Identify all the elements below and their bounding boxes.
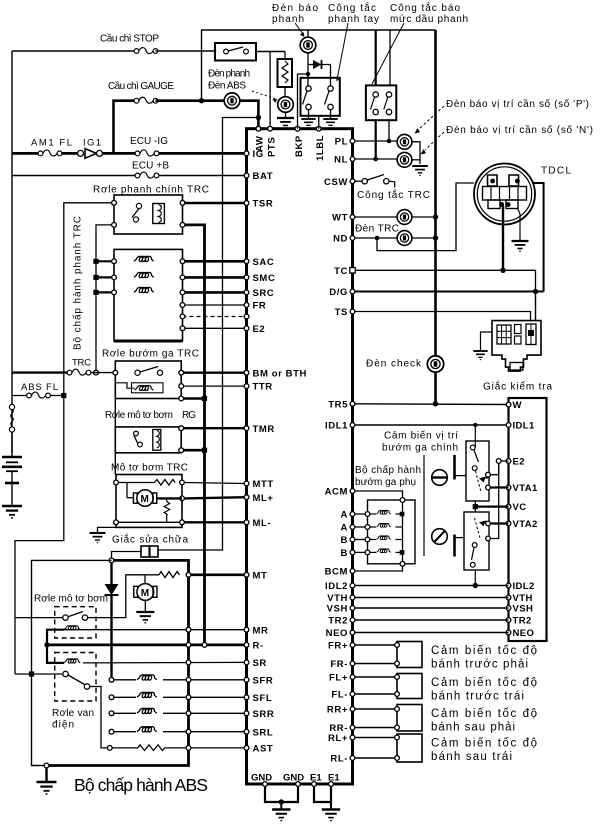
pin ECU PKB [295,126,300,131]
pin ECM NEO [506,630,511,635]
fuse AM1 FL [38,150,62,156]
pin TSR box right bottom [180,223,185,228]
svg-text:FR-: FR- [330,659,348,670]
svg-text:R-: R- [253,641,264,652]
junction TR5 [433,401,438,406]
wire STP stub [269,52,271,129]
resistor box (stop bulb check) [278,59,293,87]
wire VTH row [355,597,509,599]
pin TSR box right top [180,200,185,205]
ABS ECU main box [247,129,353,784]
coil SRC [134,287,154,292]
svg-text:AW: AW [255,135,266,152]
pin ECU SRC [244,290,249,295]
pin ECU FR- [350,661,355,666]
wire TDCL stem to TC [502,206,504,270]
throttle relay coil [132,383,164,393]
junction PL/fluid [387,139,392,144]
resistor small vertical in motor box [166,498,168,501]
wire WT row [355,216,397,218]
pin motor box left bottom [114,520,119,525]
junction service/actuator box [109,558,114,563]
junction bottom ground [44,763,49,768]
wire front right + [355,644,397,646]
svg-text:Bộ chấp hành: Bộ chấp hành [355,464,421,476]
svg-text:TMR: TMR [253,424,275,435]
ground ECU E1 [322,810,340,821]
wire ACM row [355,491,403,498]
pin motor box right ML+ [180,496,185,501]
junction AST bus [186,746,191,751]
wire +B row left [12,175,135,177]
pin ECU RR+ [350,707,355,712]
svg-text:E2: E2 [513,457,525,468]
wire SRR left [114,712,136,714]
pin ECM VTA1 [506,485,511,490]
speed sensor box rear right [397,705,422,732]
svg-text:ML+: ML+ [253,493,274,504]
svg-text:Công tắc: Công tắc [328,1,376,14]
svg-text:M: M [141,588,149,599]
svg-text:SRL: SRL [253,727,274,738]
TMR relay switch [134,431,139,436]
svg-text:NL: NL [334,155,348,166]
svg-text:E1: E1 [328,773,340,784]
wire TMR row to pin [184,427,247,429]
pin ECU ML- [244,520,249,525]
wire check lamp to TR5 [434,372,437,404]
pin sensor E2b [486,536,491,541]
svg-text:VTA2: VTA2 [513,519,538,530]
svg-text:B: B [341,535,348,546]
svg-text:SMC: SMC [253,273,276,284]
svg-text:IDL2: IDL2 [513,581,535,592]
pin ECM IDL1 [506,423,511,428]
lamp WT [397,210,412,225]
wire front left + [355,676,397,678]
pin throttle box bottom right [179,396,184,401]
TDCL connector outer [474,164,535,225]
wire front left - [355,693,397,695]
wire rear left + [355,737,397,739]
svg-text:bánh trước phải: bánh trước phải [431,659,528,671]
pin ECU B [350,550,355,555]
wire sub sensor to IDL2 [474,570,476,586]
wire VTA2 row [490,522,508,524]
pin ECU SFL [244,695,249,700]
pin SAC box right [180,259,185,264]
junction E2 [496,459,501,464]
battery [2,456,22,459]
wire STOP fuse row [12,50,134,52]
svg-text:A: A [341,510,348,521]
wire TMR box left down to motor box [114,453,116,475]
wire battery to ground [11,483,13,506]
coil SFL [137,692,157,697]
wire fluid box to NL row [375,120,377,159]
junction GND stem [279,799,284,804]
wire TSR box bottom-right to main thick rail [185,225,205,642]
svg-text:VTA1: VTA1 [513,483,538,494]
junction MT bus [186,572,191,577]
pin ECU SRR [244,711,249,716]
junction SFL bus [186,695,191,700]
svg-text:SRC: SRC [253,288,275,299]
junction IDL2 [473,583,478,588]
pin ECU FL- [350,692,355,697]
svg-text:PL: PL [335,137,348,148]
pin ECU R- [244,643,249,648]
svg-text:MT: MT [253,570,268,581]
svg-text:mức dầu phanh: mức dầu phanh [390,13,468,25]
svg-text:1LBL: 1LBL [315,135,326,161]
wire ND to TDCL loop [377,183,474,251]
pin ECU TC [350,268,355,273]
wire ML+ row to pin [184,497,246,498]
svg-text:IDL1: IDL1 [325,421,348,432]
dashed relay box solenoid relay [55,653,96,702]
coil stepper A2 [370,526,376,528]
svg-text:VSH: VSH [513,604,534,615]
pin ECU spare [244,314,249,319]
pin ECU VSH [350,606,355,611]
wire ground stem [45,768,47,782]
svg-text:TR2: TR2 [513,616,532,627]
svg-text:Rơle bướm ga TRC: Rơle bướm ga TRC [102,349,199,360]
pin ECU NEO [350,630,355,635]
main throttle sensor box [466,441,489,501]
fuse GAUGE [134,97,158,103]
pin stepper bottom [400,561,405,566]
wire main right bus [434,30,437,217]
wire gauge feed from IG row [114,101,135,154]
wire bar to box2 [456,537,465,539]
pin SRC box left [112,290,117,295]
parking switch left [306,86,311,91]
speed sensor box front left [397,674,422,699]
wire LBL1 stub [318,116,320,129]
svg-text:phanh tay: phanh tay [328,14,379,25]
wire ABS-FL rail down to relay feeds [15,396,64,675]
throttle lever bar 1 [453,455,456,480]
junction SRL bus [186,729,191,734]
ground ECU GND [272,810,290,821]
wire stepper A1 row [355,513,368,515]
pin AST left [107,746,112,751]
junction TC/TDCL [500,268,505,273]
svg-text:IDL2: IDL2 [325,581,348,592]
wire diode to right switch [322,65,331,89]
wire SRL right [163,731,247,733]
svg-text:Đèn ABS: Đèn ABS [208,81,246,92]
TMR relay coil [153,430,161,451]
junction SFR bus [186,677,191,682]
wire check connector ground [481,332,493,351]
solenoid relay coil [64,659,80,663]
svg-text:AM1 FL: AM1 FL [31,138,72,149]
wire MT row to pin [191,573,247,576]
pin SRC box right [180,290,185,295]
wire stepper B1 row [355,539,368,541]
wire GND pins to ground [265,786,298,802]
wire rear right - [355,727,397,729]
wire stepper B2 row [355,551,368,553]
pin ECU E1b [329,782,334,787]
pin ECU TMR [244,426,249,431]
wire IG row left [12,152,38,155]
pin ECU RL- [350,756,355,761]
wire resistor box feed [284,52,286,60]
sub throttle sensor box [464,512,489,570]
svg-text:SFR: SFR [253,675,274,686]
wire MR switch riser [88,575,160,618]
fuse Cau chi STOP [134,48,158,54]
wire SRC row left [96,291,114,293]
svg-text:Đèn check: Đèn check [366,359,422,370]
pin motor box right MTT [180,480,185,485]
wire motor box to ground [98,527,117,533]
svg-text:W: W [513,400,522,411]
svg-text:NEO: NEO [326,628,348,639]
pin TSR box left top [112,200,117,205]
junction R- bus 1 [186,643,191,648]
pin ECU GND1 [263,782,268,787]
svg-text:TS: TS [335,307,348,318]
junction MR bus [186,627,191,632]
wire DG junction to check connector [535,292,537,321]
pin ECU IDL1 [350,423,355,428]
pin FR box [180,303,185,308]
callout line fluid level [372,23,404,84]
wire parking grounds [308,110,310,119]
pin ECU LBL1 [316,126,321,131]
svg-text:A: A [341,523,348,534]
wire fluid box to PL row [388,120,390,141]
relay box TMR [115,427,181,453]
svg-text:RL-: RL- [330,754,348,765]
lamp Den bao phanh [307,30,309,38]
wire stop fuse to switch box [156,50,216,52]
ABS actuator enclosure box [32,560,112,765]
svg-text:Bộ chấp hành ABS: Bộ chấp hành ABS [74,775,208,795]
svg-text:M: M [141,494,149,505]
pin ECU E2 [244,326,249,331]
pin ECU BCM [350,569,355,574]
wire PKB header [298,74,309,129]
pin ECU WT [350,215,355,220]
wire ND row [355,237,397,239]
TSR relay coil [153,204,165,224]
wire ML- internal [118,521,179,523]
pin ECM TR2 [506,618,511,623]
ground check connector [473,351,487,360]
pin ECU D/G [350,289,355,294]
wire SRL left [114,731,136,733]
pin ECU TR5 [350,401,355,406]
pin dashed box [180,314,185,319]
wire SMC row left [96,276,114,278]
pin ECM W [506,402,511,407]
svg-text:Cầu chì STOP: Cầu chì STOP [100,33,159,45]
wire MTT row to pin [184,483,246,484]
wire rear right + [355,708,397,710]
pin ECU E1a [312,782,317,787]
svg-text:E2: E2 [253,324,266,335]
junction square SRC [93,290,98,295]
wire SR row [83,661,247,664]
junction R- stub [44,642,49,647]
motor ABS pump M [144,575,146,585]
pin motor box right ML- [180,520,185,525]
junction stepper B2 [400,550,405,555]
wire SFR right [163,679,247,681]
junction R- main rail [202,643,207,648]
fuse ECU+B [135,172,159,178]
speed sensor box front right [397,642,422,668]
fuse ECU-IG [135,150,159,156]
ground under stop lamp [285,113,287,119]
lamp N position [397,152,412,167]
svg-text:NEO: NEO [513,628,535,639]
wire R- row thick [47,644,247,647]
wire switch feed row [15,673,63,675]
wire front right - [355,663,397,665]
wire bar to box1 [456,475,467,477]
svg-text:SR: SR [253,658,267,669]
svg-text:VSH: VSH [327,604,348,615]
coil stepper B1 [370,539,376,541]
svg-text:VC: VC [513,502,527,513]
wire gauge row to WA [156,99,225,102]
wire TSR out to pin [185,202,247,205]
pin ECU VTH [350,595,355,600]
lamp below resistor box [284,87,286,97]
junction square SMC [93,275,98,280]
wire BCM row [355,566,403,571]
throttle lever bar 2 [453,535,456,557]
svg-text:Rơle mô tơ bơm: Rơle mô tơ bơm [105,410,173,421]
wire ML- row to pin [184,521,246,523]
svg-text:CSW: CSW [324,177,348,188]
junction SRR bus [186,711,191,716]
wire MR row [64,629,247,631]
pin sensor VTA2 [486,521,491,526]
junction NL/fluid [373,157,378,162]
stop light switch box [215,43,256,61]
svg-text:E1: E1 [310,773,322,784]
pin ECU SRL [244,729,249,734]
pin stepper A1 [365,512,370,517]
lamp WA warning on gauge row [224,93,240,109]
engine ECU box [509,398,547,641]
junction WA branch [256,115,261,120]
wire VSH row [355,607,509,609]
callout arrow to brake lamp [295,23,303,34]
junction stepper A1 [400,512,405,517]
svg-text:RR+: RR+ [327,705,348,716]
wire SAC row left [96,260,114,262]
pin ECM VC [506,504,511,509]
svg-text:WT: WT [332,213,348,224]
svg-text:VTH: VTH [513,593,533,604]
junction lamp/PKB [306,72,310,76]
pin TSR box left bottom [112,223,117,228]
pin ECU TTR [244,384,249,389]
svg-text:FL+: FL+ [329,673,348,684]
pin ECM VSH [506,606,511,611]
coil stepper B2 [370,551,376,553]
wire sensor E2b loop [490,463,498,538]
svg-text:Công tắc báo: Công tắc báo [390,1,460,14]
parking switch right [328,86,333,91]
callout dotted P [419,106,444,129]
wire WT lamp to bus [412,216,436,218]
svg-text:BAT: BAT [253,171,274,182]
junction DG/check [533,289,538,294]
pin ECU MT [244,572,249,577]
junction main rail / TMR box [202,448,207,453]
pin ECU AST [244,746,249,751]
svg-text:D/G: D/G [329,287,348,298]
solenoid relay switch [63,671,68,676]
throttle sensor wiper 1 [476,471,482,492]
wire SAC to pin [185,260,247,263]
svg-text:RG: RG [182,410,196,421]
resistor AST [112,747,138,749]
diode rail with diode [110,563,112,584]
coil SAC [134,256,154,261]
pin SMC box left [112,275,117,280]
ground TDCL [512,241,529,251]
svg-text:FL-: FL- [331,690,348,701]
wire NEO row [355,632,509,634]
switch CSW [355,180,362,182]
wire TR2 row [355,619,509,621]
lamp P position [397,134,412,149]
pin ECU RL+ [350,735,355,740]
wire TS row [355,312,531,321]
pin stepper B2 [365,550,370,555]
solenoid box TRC brake actuator [114,249,183,341]
wire fluid box feeds [375,30,377,85]
junction square box entry [29,671,34,676]
relay box throttle [115,361,181,399]
pin SAC box left [112,259,117,264]
wire service connector left leg [112,552,142,559]
pin ECU GND2 [296,782,301,787]
svg-text:TTR: TTR [253,382,273,393]
pin ECU TSR [244,201,249,206]
junction WT bus [433,214,438,219]
wire NL row [355,158,397,160]
wire top rail riser [202,30,436,101]
wire E2 row left [183,327,247,329]
svg-text:RL+: RL+ [328,733,348,744]
pin ECM VTA2 [506,521,511,526]
wire throttle box left down to TMR box [114,399,116,427]
svg-text:Đèn báo: Đèn báo [272,3,318,14]
svg-text:Công tắc TRC: Công tắc TRC [357,188,430,201]
svg-text:ECU -IG: ECU -IG [130,136,168,147]
svg-text:TR5: TR5 [328,399,348,410]
svg-text:ND: ND [333,234,348,245]
wire VTA1 row [490,486,508,488]
resistor MT [159,572,180,578]
pin SFL left [109,695,114,700]
ground ABS actuator [37,782,57,794]
service connector [141,546,149,557]
wire thick bus bottom [49,762,189,766]
